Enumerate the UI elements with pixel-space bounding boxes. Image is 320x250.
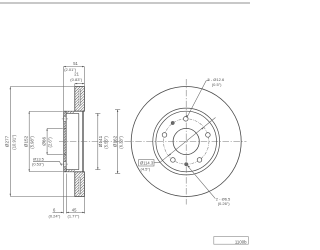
lug hole centerline marks xyxy=(62,119,68,164)
svg-text:Ø66: Ø66 xyxy=(42,137,47,146)
svg-text:(0.26"): (0.26") xyxy=(218,201,231,206)
dim Ø66 line xyxy=(47,129,63,155)
svg-text:Ø152: Ø152 xyxy=(24,135,29,147)
hat wall top band xyxy=(66,111,75,113)
center bore Ø66 xyxy=(173,128,199,154)
svg-text:(5.55"): (5.55") xyxy=(103,136,108,149)
svg-text:21: 21 xyxy=(74,72,79,77)
label Ø114.3 boxed xyxy=(139,160,154,166)
svg-text:Ø277: Ø277 xyxy=(5,135,10,147)
locating holes 2 x Ø6.5 xyxy=(171,121,174,124)
svg-text:1100b: 1100b xyxy=(235,239,247,244)
vent channel bottom xyxy=(79,178,80,194)
svg-text:45: 45 xyxy=(72,207,77,212)
vertical centerline xyxy=(185,79,187,205)
svg-text:6: 6 xyxy=(53,207,56,212)
dim Ø162 line xyxy=(115,110,120,174)
svg-text:(5.98"): (5.98") xyxy=(30,136,35,149)
main horizontal centerline xyxy=(59,141,247,143)
hat junction lines xyxy=(64,111,84,172)
svg-text:(6.38"): (6.38") xyxy=(118,136,123,149)
bolt circle Ø114.3 dash-dot xyxy=(164,119,209,164)
border frame top line xyxy=(0,2,250,4)
svg-text:(2.6"): (2.6") xyxy=(47,137,52,148)
disc bar (friction ring) section bottom xyxy=(75,172,85,197)
svg-text:(0.24"): (0.24") xyxy=(49,213,62,218)
dim 21 xyxy=(75,84,85,87)
svg-text:51: 51 xyxy=(73,61,78,66)
svg-text:Ø162: Ø162 xyxy=(113,135,118,147)
outer circle Ø277 xyxy=(131,87,241,197)
circle Ø152 xyxy=(156,111,217,172)
svg-text:(0.53"): (0.53") xyxy=(32,162,45,167)
bore edge lines xyxy=(64,129,66,155)
disc bar (friction ring) section top xyxy=(75,87,85,112)
dim Ø152 line xyxy=(29,111,63,171)
dim 51 xyxy=(64,67,85,111)
svg-text:(4.5"): (4.5") xyxy=(141,167,151,172)
vent channel top xyxy=(79,89,80,105)
flange lug hole edges xyxy=(64,116,66,167)
circle Ø168 xyxy=(153,108,220,175)
title box xyxy=(214,237,249,245)
svg-text:Ø141: Ø141 xyxy=(98,135,103,147)
dim Ø277 line xyxy=(10,87,75,197)
svg-text:(1.77"): (1.77") xyxy=(68,213,81,218)
svg-text:(0.83"): (0.83") xyxy=(70,77,83,82)
bolt holes 5 x Ø12.6 xyxy=(162,117,210,163)
svg-text:(0.5"): (0.5") xyxy=(212,82,222,87)
diagonal diameter line xyxy=(160,118,216,163)
svg-text:(10.91"): (10.91") xyxy=(11,134,16,149)
hat wall bottom band xyxy=(66,170,75,172)
flange lug hole gap top xyxy=(64,116,66,121)
flange lug hole gap bottom xyxy=(64,161,66,166)
mounting flange bar xyxy=(64,111,66,171)
svg-text:Ø114.3: Ø114.3 xyxy=(140,161,154,166)
dim Ø141 line xyxy=(95,113,100,169)
